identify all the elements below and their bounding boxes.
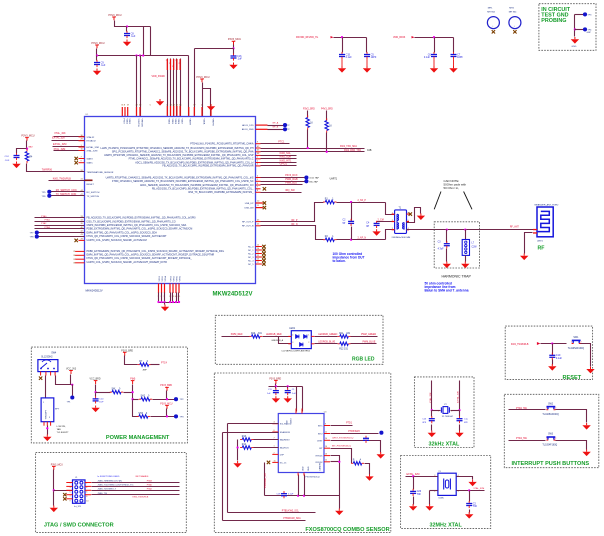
pin number 7 — [81, 157, 83, 159]
svg-text:PTC4: PTC4 — [161, 363, 168, 365]
svg-text:VOUT33: VOUT33 — [137, 119, 139, 128]
svg-text:PTD7: PTD7 — [123, 119, 125, 125]
capacitor C10 — [93, 396, 99, 403]
resistor R1 — [323, 198, 336, 203]
note LOW PB TAB — [57, 426, 70, 434]
pin stub right 9 — [256, 142, 261, 145]
pin numbers MCU bottom — [158, 296, 182, 298]
wire SDA row — [223, 432, 279, 434]
svg-text:JTAG / SWD CONNECTOR: JTAG / SWD CONNECTOR — [44, 523, 114, 529]
wire vertical rail x150 — [150, 27, 152, 56]
push button SW2 — [542, 403, 559, 416]
no-connect GANO — [75, 157, 78, 160]
wire test gnd vertical — [574, 15, 576, 37]
label PWM_BLU — [285, 182, 297, 185]
wire R15 to ground — [365, 464, 370, 475]
svg-text:JTAG_TCLK/SWD_CLK/TGTMCK_T/C: JTAG_TCLK/SWD_CLK/TGTMCK_T/C — [97, 484, 134, 487]
svg-text:2: 2 — [308, 342, 309, 344]
no-connect NC — [262, 255, 265, 258]
pin stub right 3 — [256, 164, 261, 167]
wire SW1 to ground — [581, 344, 591, 367]
wire LED blue to R12 — [315, 343, 338, 345]
junction PM riser — [131, 391, 133, 393]
pin name TX_SWITCH — [87, 196, 100, 198]
ground below C8 — [123, 40, 131, 47]
label KW2_SCL — [280, 152, 292, 155]
pin name SDA/MOSI — [280, 431, 291, 434]
svg-text:HARMONIC TRAP: HARMONIC TRAP — [442, 274, 472, 278]
label C2B — [367, 150, 372, 152]
test point TP3 — [583, 12, 592, 16]
svg-text:T0F: T0F — [473, 505, 478, 508]
svg-text:10PF: 10PF — [371, 56, 377, 59]
svg-text:0.1uF: 0.1uF — [346, 56, 353, 59]
ground below R15 — [365, 474, 373, 481]
wire LED green to R11 — [315, 336, 338, 338]
svg-text:SDA/MOSI: SDA/MOSI — [280, 431, 291, 434]
balun T1 2450MHz/100OHM — [392, 208, 411, 239]
svg-text:GND: GND — [572, 46, 577, 48]
wire Y1 pin2 — [430, 490, 438, 492]
resistor R12 — [338, 342, 351, 345]
note 50 ohm controlled impedance — [425, 282, 469, 293]
svg-text:VSS5: VSS5 — [176, 275, 178, 281]
wire J1 row 3 — [92, 490, 180, 492]
svg-text:NC_0: NC_0 — [248, 246, 254, 248]
wire stub gnd — [366, 59, 368, 66]
svg-text:VDD6: VDD6 — [177, 119, 179, 125]
wire to balun pin3 — [386, 230, 395, 240]
wire J1 row 4 — [92, 494, 180, 496]
svg-text:21: 21 — [257, 251, 259, 253]
pin stubs sensor bottom — [298, 473, 305, 476]
svg-text:TAB: TAB — [57, 428, 62, 431]
box RESET — [505, 326, 592, 380]
label C2 value — [343, 220, 347, 226]
no-connect USB — [263, 201, 266, 204]
resistor R15 — [351, 460, 364, 465]
pin name EXTAL32 — [87, 140, 97, 143]
pin stub NC — [256, 260, 262, 261]
svg-text:10PF: 10PF — [457, 56, 463, 59]
svg-text:PTD5/SW3: PTD5/SW3 — [348, 431, 360, 433]
test point TP2 — [174, 397, 178, 401]
wire SRD2 stub — [326, 111, 328, 121]
test point UART tap 2 — [304, 179, 308, 183]
junction rail C11 — [275, 385, 277, 387]
no-connect MH1 anchor — [492, 30, 495, 33]
pin stub NC — [256, 264, 262, 265]
pin stub sensor DVP — [272, 454, 278, 455]
pin name SA0/MISO — [280, 439, 290, 442]
pin stub right 6 — [256, 183, 261, 186]
wire UART TXD — [261, 148, 365, 150]
pin stub NC — [256, 257, 262, 258]
power flag P3V3_BRD — [123, 352, 127, 356]
pin stub GANO — [79, 158, 85, 159]
net label PTD4_SW — [516, 438, 528, 440]
wire Y1 pin4 to gnd — [457, 477, 473, 480]
wire SRD1 to UART — [307, 130, 309, 149]
pin stubs lower left — [75, 251, 84, 263]
junction TP2 — [166, 398, 168, 400]
wire stub gnd — [433, 59, 435, 66]
svg-text:0.1uF: 0.1uF — [556, 357, 563, 360]
label PWM_GREEN — [361, 334, 376, 336]
svg-text:MH 934: MH 934 — [487, 12, 495, 14]
net label P4V3_SRD — [321, 109, 333, 111]
label P(M) — [130, 379, 135, 381]
wire R14 to SA1 — [254, 447, 279, 449]
svg-text:ADC0_DM0: ADC0_DM0 — [242, 128, 254, 131]
pin number 44 — [81, 190, 84, 192]
net label RFVDD_RFVDD_HL — [296, 36, 334, 39]
ground below R13/R14 — [233, 461, 241, 468]
svg-text:to balun.: to balun. — [333, 259, 346, 263]
svg-text:1UF: 1UF — [99, 402, 104, 404]
label EXTAL_32K — [52, 136, 65, 139]
box RGB LED — [215, 315, 383, 364]
pin name XTAL_32M — [87, 150, 98, 153]
test point TP9 — [379, 431, 383, 435]
svg-text:XTAL_32K: XTAL_32K — [429, 392, 432, 403]
wire stub C6 — [434, 38, 436, 53]
wire to C24 — [17, 149, 27, 154]
regulator U2 — [41, 398, 60, 422]
svg-text:I2S0_TX_BCLK/CMP0_IN1/PDB0_EXT: I2S0_TX_BCLK/CMP0_IN1/PDB0_EXTRG/EWM_IN/… — [87, 220, 176, 223]
test point TP4 — [583, 27, 592, 31]
junction C15 — [341, 36, 343, 38]
svg-text:ADC1_SE6b/FB_AD2/I2S0_TX_BCLK/: ADC1_SE6b/FB_AD2/I2S0_TX_BCLK/CMP0_IN1/P… — [140, 184, 254, 187]
power flag P3V3_BRD sensor — [274, 380, 278, 384]
wire stub gnd — [341, 59, 343, 66]
wire RF output — [407, 229, 537, 231]
svg-text:32.768KHZ: 32.768KHZ — [442, 416, 454, 418]
wire C3 lower — [446, 249, 448, 262]
svg-text:MH2: MH2 — [509, 8, 514, 10]
pin number 6 — [274, 430, 275, 432]
wire to balun pin1 — [386, 203, 395, 215]
wire SW3 to ground — [556, 441, 587, 450]
svg-text:PWM_BLU: PWM_BLU — [285, 182, 297, 185]
junction gnd pin a — [297, 495, 299, 497]
wire stub C15 — [342, 38, 344, 53]
wire sensor decoupling rail — [269, 386, 303, 388]
pin number 15 — [274, 460, 276, 462]
label XTAL_32M — [54, 148, 66, 151]
pin name SCL/SCLK — [280, 424, 291, 426]
pin stub USB — [256, 201, 263, 204]
ground Y1 pin2 — [425, 504, 433, 511]
junction R14 — [236, 446, 238, 448]
wire C26 to gnd — [413, 497, 415, 505]
title JTAG / SWD CONNECTOR — [44, 523, 114, 529]
no-connect J1 pin9 — [63, 497, 66, 500]
resistor R10 — [249, 333, 262, 338]
wire U2 to ground — [47, 426, 49, 435]
MCU interior pin function text (left block D) — [87, 250, 225, 264]
MCU interior pin names RF — [242, 221, 254, 227]
label XTAL_32K — [54, 132, 66, 135]
box JTAG SWD CONNECTOR — [36, 453, 187, 533]
junction bottom bus — [163, 301, 165, 303]
ground balun pin5 — [417, 213, 425, 220]
junction rail-c — [142, 54, 144, 56]
ground below C11 — [272, 396, 280, 403]
wire C2 lower — [351, 227, 353, 240]
no-connect USB — [263, 206, 266, 209]
wire P3V3_DCX — [261, 177, 305, 179]
pin name INT2 — [318, 434, 323, 436]
note CAD NOTE — [444, 179, 467, 190]
wire INT net — [331, 449, 352, 464]
label C4 value — [366, 222, 370, 228]
wire stub C12 — [287, 387, 289, 389]
svg-text:2450MHz/100OHM: 2450MHz/100OHM — [392, 237, 411, 239]
wire JTAG power rail — [53, 470, 55, 506]
svg-text:50 Ohm l in,: 50 Ohm l in, — [444, 186, 460, 190]
svg-text:RX_SWITCH_CON: RX_SWITCH_CON — [56, 189, 77, 192]
svg-text:VREFH: VREFH — [211, 119, 213, 127]
pin stubs SW4 — [40, 372, 56, 376]
ground under VDD bundle — [156, 99, 164, 106]
box 32MHz XTAL — [401, 456, 491, 529]
svg-text:UART0_COL_b/SPI0_SCK/I2C0_SDA/: UART0_COL_b/SPI0_SCK/I2C0_SDA/RF_ACTIVE/… — [87, 261, 168, 264]
svg-text:JTAG_TDI: JTAG_TDI — [97, 492, 107, 495]
pin RESET highlighted — [85, 180, 93, 182]
labels UART taps — [309, 177, 337, 184]
wire R10 to LED — [263, 336, 292, 338]
wire VDD bundle 3 — [173, 59, 175, 117]
svg-text:5P: 5P — [343, 223, 346, 225]
push button SW3 — [542, 434, 557, 447]
svg-text:2: 2 — [451, 410, 452, 412]
svg-text:FB_AD2/I2S0_TX_BCLK/CMP0_IN1/P: FB_AD2/I2S0_TX_BCLK/CMP0_IN1/PDB0_EXTRG/… — [162, 165, 253, 168]
no-connect NC — [262, 248, 265, 251]
svg-text:EWM_IN/FTM1_QD_PHA/UART0_COL_b: EWM_IN/FTM1_QD_PHA/UART0_COL_b/SPI0_SCK/… — [87, 254, 215, 257]
wire to C13 — [431, 411, 433, 417]
wire L7 upper — [465, 230, 467, 240]
label P3V3_DCX — [285, 174, 298, 177]
wire to C14 — [459, 411, 461, 417]
title 32kHz XTAL — [429, 441, 460, 447]
wire left pin XTAL32 — [54, 136, 85, 138]
svg-text:P3V2_SRD: P3V2_SRD — [303, 109, 315, 111]
test point TP1 — [70, 395, 74, 399]
resistor R5 — [306, 115, 313, 129]
LED LED1 (RGB) — [289, 328, 311, 349]
svg-text:13: 13 — [325, 454, 327, 456]
wire RSVD2 — [331, 461, 340, 463]
pin number 9 — [81, 161, 83, 163]
label PTA0 — [41, 215, 47, 218]
pin stub top VDD bundle 4 — [176, 59, 177, 70]
box POWER MANAGEMENT — [31, 347, 187, 443]
wire CRST — [331, 441, 381, 453]
pin stub right 5 — [256, 179, 261, 182]
svg-text:SA1/SCS: SA1/SCS — [280, 447, 289, 450]
title MKW24D512V — [213, 292, 253, 298]
svg-text:PTA3: PTA3 — [147, 480, 153, 483]
label TW/RF06 — [42, 169, 53, 172]
pin stub right 64 — [256, 153, 261, 156]
svg-text:VDD7: VDD7 — [180, 119, 182, 125]
pin name TEMPERATURE_SENSOR — [87, 171, 114, 174]
junction bottom bus — [172, 301, 174, 303]
wire VCC flag down — [70, 375, 72, 385]
wire bottom pin drop — [164, 293, 166, 303]
label C24 value — [5, 156, 10, 162]
svg-text:9: 9 — [325, 423, 326, 425]
junction C19 — [551, 342, 553, 344]
pin stubs J1 right — [85, 482, 91, 495]
wire GPIO1 — [261, 165, 297, 167]
pin stub right 1 — [256, 157, 261, 160]
svg-text:R11: R11 — [339, 333, 344, 335]
resistor SH3 — [137, 413, 150, 418]
wire SDA vertical — [222, 433, 224, 521]
switch SW4 SL12SDH2 — [38, 352, 58, 371]
pin stubs sensor top — [296, 409, 303, 414]
wire L7 lower — [465, 256, 467, 262]
svg-text:.1uF: .1uF — [131, 35, 136, 38]
wire PTD4 to SW3 — [509, 440, 546, 442]
svg-text:FTM0_CH4/ADC1_SE6b/FB_AD2/I2S0: FTM0_CH4/ADC1_SE6b/FB_AD2/I2S0_TX_BCLK/C… — [112, 180, 254, 183]
junction C2 bottom — [350, 239, 352, 241]
wire R12 to PWM_BLUE — [351, 343, 377, 345]
svg-text:NF_A: NF_A — [273, 122, 279, 125]
junction C6 — [433, 36, 435, 38]
label PTD1 — [346, 423, 353, 425]
junction VCC TP — [71, 384, 73, 386]
svg-text:RESET: RESET — [87, 184, 95, 186]
svg-text:.1uF: .1uF — [292, 393, 297, 395]
no-connect SW4 pin1 — [39, 377, 42, 380]
wire horizontal rail y55 — [97, 55, 189, 57]
svg-text:4.7pF: 4.7pF — [438, 249, 444, 251]
svg-text:PWM_RED: PWM_RED — [231, 334, 243, 336]
svg-text:2: 2 — [166, 60, 167, 62]
connector J1 — [70, 477, 89, 508]
wire drop C7 — [453, 38, 455, 53]
wire riser to SH2 — [133, 399, 139, 401]
wire P3V3_BRD to R7 — [125, 356, 138, 365]
test point TP3 (PM) — [174, 414, 178, 418]
svg-text:VDD3: VDD3 — [168, 119, 170, 125]
svg-text:R13: R13 — [242, 436, 247, 438]
junction C27 — [468, 489, 470, 491]
junction C2 top — [350, 201, 352, 203]
wire VCC to SW5 res — [96, 392, 111, 394]
svg-text:2_NF_N: 2_NF_N — [358, 238, 367, 240]
labels JTAG net names — [97, 475, 148, 495]
label C11 value — [267, 389, 273, 395]
pin stub NC — [256, 253, 262, 254]
svg-text:FXOS8700CQ: FXOS8700CQ — [306, 477, 320, 479]
pin stub sensor CRST — [324, 440, 330, 441]
junction bottom bus — [178, 301, 180, 303]
crystal Y1 32MHz body — [434, 471, 458, 500]
svg-text:USB_DP: USB_DP — [245, 203, 254, 205]
power flag P3V3_MCU (top left) — [108, 14, 121, 20]
no-connect J1 pin7 — [63, 493, 66, 496]
pin stub sensor NC_15 — [272, 462, 278, 463]
title RGB LED — [352, 357, 375, 363]
svg-text:1: 1 — [308, 335, 309, 337]
test point ADC0_DM0 — [283, 127, 287, 131]
svg-text:FXOS8700CQ COMBO SENSOR: FXOS8700CQ COMBO SENSOR — [305, 527, 389, 533]
svg-text:10: 10 — [86, 501, 88, 503]
svg-text:NC_1: NC_1 — [248, 250, 254, 252]
no-connect right pin — [263, 187, 266, 190]
svg-text:JMP: JMP — [142, 369, 147, 371]
svg-text:TX_SWITCH_CON: TX_SWITCH_CON — [56, 193, 77, 196]
label P3V3_BRD (sensor) — [269, 378, 281, 380]
label PWM_RED — [231, 334, 243, 336]
svg-text:LOW PB,: LOW PB, — [57, 426, 67, 428]
label GNP — [587, 32, 592, 34]
label EXTAL_32K rotated — [457, 391, 460, 403]
label LEDRGB_BLUE — [318, 342, 335, 344]
label VCC_3V3 — [66, 369, 77, 371]
svg-text:4: 4 — [86, 487, 87, 489]
svg-text:UART0_COL_b/SPI0_SCK/I2C0_SDA/: UART0_COL_b/SPI0_SCK/I2C0_SDA/RF_ACTIVE/… — [87, 239, 147, 242]
wire to bottom ground — [164, 303, 166, 305]
label TP1 — [67, 401, 72, 403]
svg-text:27: 27 — [257, 262, 259, 264]
ground below C12 — [284, 396, 292, 403]
wire pin2 to gnd — [429, 491, 431, 505]
junction L7 — [464, 228, 466, 230]
wire rail to pin x194 — [194, 49, 196, 117]
labels RF_P RF_N — [292, 220, 298, 226]
label RX_SWITCH_CON — [56, 189, 77, 192]
svg-text:VSS4: VSS4 — [173, 275, 175, 281]
wire PTC1 — [261, 143, 290, 145]
svg-text:RF: RF — [538, 245, 545, 251]
pin stub sensor RSVD1 — [324, 455, 330, 456]
svg-text:EXTAL32: EXTAL32 — [87, 140, 97, 143]
svg-text:FTM1_QD_PHA/UART0_COL_b/SPI0_S: FTM1_QD_PHA/UART0_COL_b/SPI0_SCK/I2C0_SD… — [87, 257, 193, 260]
wire rail to ground — [339, 496, 341, 509]
svg-text:P4V3_SRD: P4V3_SRD — [321, 109, 333, 111]
svg-text:6: 6 — [274, 430, 275, 432]
pin number 1 — [81, 145, 83, 147]
antenna ANT1 meander — [535, 204, 560, 243]
svg-text:.1uF: .1uF — [101, 64, 106, 67]
svg-text:KW2_TW26/RLB: KW2_TW26/RLB — [53, 177, 72, 180]
ground antenna — [520, 254, 528, 261]
labels JTAG right net names — [133, 480, 153, 499]
svg-text:NC_2: NC_2 — [248, 253, 254, 255]
wire rail to VDD pin a — [136, 56, 138, 117]
svg-text:9: 9 — [70, 501, 71, 503]
svg-text:PTD1: PTD1 — [346, 423, 353, 425]
svg-text:9P: 9P — [366, 226, 369, 228]
svg-text:KW2_RXD_TXD: KW2_RXD_TXD — [344, 150, 361, 152]
MCU U1 MKW24D512V body — [85, 114, 256, 284]
svg-text:FTM1_QD_PHA/UART0_COL_b/SPI0_S: FTM1_QD_PHA/UART0_COL_b/SPI0_SCK/I2C0_SD… — [87, 235, 168, 238]
wire ADC0_DM0 to test point — [268, 129, 284, 131]
wire PM riser to SH3 — [133, 385, 139, 417]
wire PTA5 — [38, 236, 85, 238]
label C18 value — [277, 493, 295, 495]
label PTA1 — [45, 219, 51, 222]
ground C13 — [428, 431, 436, 438]
wire balun pin5 to ground loop — [407, 208, 421, 223]
wire stub C11 — [275, 387, 277, 389]
wire PTA1 — [35, 221, 85, 223]
